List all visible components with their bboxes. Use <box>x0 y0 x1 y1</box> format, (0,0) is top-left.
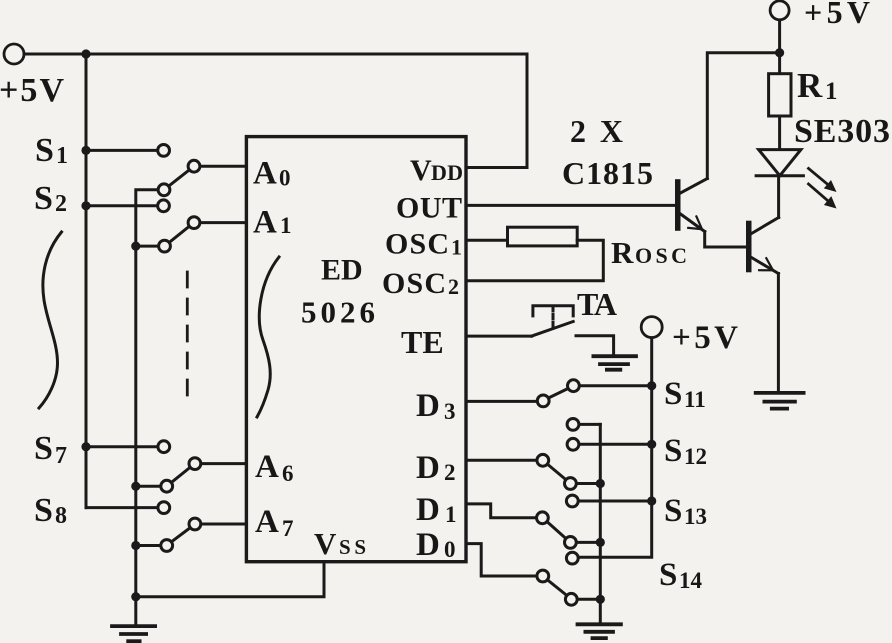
switch A0 <box>158 160 200 195</box>
svg-text:A: A <box>255 504 279 540</box>
svg-text:+5V: +5V <box>672 320 738 356</box>
label S14 <box>659 557 703 593</box>
wire S7 row <box>86 445 157 448</box>
wire stub to busR2 <box>580 423 601 426</box>
op-amp none; IC U1 ED5026 body <box>246 137 466 562</box>
svg-text:11: 11 <box>684 387 706 412</box>
label pin A6 <box>255 449 294 486</box>
terminal +5V top-right <box>770 1 789 20</box>
svg-text:1: 1 <box>445 502 457 527</box>
junction S7 / bus1 <box>81 442 90 451</box>
transistor Q1 (C1815) <box>675 179 707 232</box>
svg-text:S: S <box>34 430 53 467</box>
wire Q1 emitter to Q2 base <box>705 232 746 248</box>
contact S8 <box>158 502 170 514</box>
wire D2 throw to busR2 <box>577 482 600 485</box>
LED light emission arrows <box>809 169 837 209</box>
label S1 <box>35 132 68 169</box>
svg-text:8: 8 <box>55 503 67 529</box>
wire bus1 vertical <box>85 54 88 508</box>
wire +5V terminal to R1 <box>778 20 781 74</box>
junction D1 throw / busR2 <box>596 538 605 547</box>
wire bus2 vertical (switch common bus) <box>136 190 158 626</box>
label pin D3 <box>416 388 456 424</box>
svg-text:2: 2 <box>444 460 456 485</box>
terminal +5V top-left <box>4 44 24 64</box>
label S2 <box>34 180 67 217</box>
junction Vss wire / bus2 <box>131 592 140 601</box>
switch A1 <box>136 217 200 252</box>
contact S2 <box>158 200 170 212</box>
wire OUT pin to Q1 base <box>466 204 675 207</box>
svg-text:D: D <box>416 450 440 486</box>
wire S11 row <box>580 384 652 387</box>
contact S7 <box>158 441 170 453</box>
junction S11 / +5V column <box>647 381 656 390</box>
svg-text:12: 12 <box>684 444 707 469</box>
svg-text:A: A <box>253 156 277 192</box>
LED D? SE303 <box>756 150 803 176</box>
label S8 <box>34 492 67 529</box>
contact S13 <box>566 495 578 507</box>
junction D2 throw / busR2 <box>596 479 605 488</box>
wire R1 to LED anode <box>778 116 781 150</box>
svg-text:S: S <box>659 557 677 593</box>
contact S1 <box>158 145 170 157</box>
wire S1 row <box>86 149 157 152</box>
label pin A0 <box>253 156 291 192</box>
brace squiggle inside IC (A1...A6) <box>257 257 279 417</box>
junction A6 contact / bus2 <box>131 482 140 491</box>
label Rosc <box>611 235 687 270</box>
wire Vss pin to ground bus <box>136 562 324 597</box>
transistor Q2 (C1815) <box>746 218 779 274</box>
junction S2 / bus1 <box>81 201 90 210</box>
svg-text:S: S <box>34 492 53 529</box>
svg-text:R: R <box>611 235 634 270</box>
label S11 <box>664 376 706 412</box>
wire top rail from +5V terminal to VDD pin <box>24 54 527 168</box>
junction D0 throw / busR2 <box>596 595 605 604</box>
label pin OSC2 <box>382 267 459 300</box>
switch A6 <box>136 458 201 492</box>
svg-text:2: 2 <box>448 274 459 299</box>
ground under Q2 <box>756 393 804 409</box>
svg-text:OSC: OSC <box>385 228 449 261</box>
svg-text:SE303: SE303 <box>794 113 890 150</box>
svg-text:S: S <box>664 493 682 529</box>
svg-text:S: S <box>664 433 682 469</box>
junction top-right rail <box>775 48 784 57</box>
label pin D0 <box>416 527 456 563</box>
wire S12 row <box>580 443 652 446</box>
wire pin A6 <box>201 462 246 465</box>
junction S1 / bus1 <box>81 146 90 155</box>
wire D0 throw to busR2 <box>578 598 601 601</box>
label pin D2 <box>416 450 456 486</box>
wire pin D3 <box>466 400 537 403</box>
svg-text:+5V: +5V <box>804 0 870 30</box>
label pin A1 <box>253 205 292 241</box>
resistor Rosc <box>508 227 578 246</box>
pushbutton TA <box>532 306 574 336</box>
label pin A7 <box>255 504 294 541</box>
ground under TA <box>593 356 636 370</box>
svg-text:TE: TE <box>401 324 444 360</box>
junction A7 contact / bus2 <box>131 541 140 550</box>
label pin VDD <box>410 154 463 187</box>
svg-text:DD: DD <box>431 160 463 185</box>
svg-text:S: S <box>34 180 53 217</box>
svg-text:7: 7 <box>282 516 294 541</box>
svg-text:2 X: 2 X <box>570 113 623 149</box>
svg-text:D: D <box>416 492 440 528</box>
switch A7 <box>136 518 201 551</box>
svg-text:OUT: OUT <box>396 192 462 225</box>
junction S13 / +5V column <box>647 496 656 505</box>
switch D0 arm <box>537 570 577 605</box>
junction A1 contact / bus2 <box>131 242 140 251</box>
svg-text:1: 1 <box>280 213 292 238</box>
label S7 <box>34 430 67 469</box>
dashed ellipsis line (omitted switches) <box>186 272 189 403</box>
svg-text:3: 3 <box>444 399 456 424</box>
brace squiggle left (S2...S7) <box>39 232 62 408</box>
contact D3 lower throw <box>567 419 579 431</box>
svg-text:1: 1 <box>451 235 462 260</box>
switch S11 (D3) <box>537 380 579 407</box>
svg-text:D: D <box>416 388 440 424</box>
svg-text:1: 1 <box>825 78 838 105</box>
label pin D1 <box>416 492 457 528</box>
label pin Vss <box>314 526 366 561</box>
svg-text:C1815: C1815 <box>562 155 653 191</box>
wire pin D2 <box>466 459 536 462</box>
contact S12 <box>567 438 579 450</box>
svg-text:OSC: OSC <box>382 267 446 300</box>
svg-text:A: A <box>253 205 277 241</box>
wire +5V column down to S14 row <box>579 338 652 558</box>
ground under busR2 <box>578 624 621 638</box>
wire TA contact to ground <box>576 336 614 357</box>
svg-text:V: V <box>314 526 337 561</box>
wire Rosc to OSC2 pin <box>466 240 603 281</box>
junction bus1 / top rail <box>81 49 90 58</box>
svg-text:V: V <box>410 154 432 187</box>
svg-text:ED: ED <box>321 253 363 286</box>
wire pin A7 <box>201 523 246 526</box>
wire pin D0 <box>466 544 536 576</box>
contact S14 <box>566 552 578 564</box>
wire Q2 emitter to ground <box>777 274 780 390</box>
wire pin A1 <box>201 221 247 224</box>
wire TE pin <box>466 335 532 338</box>
label pin OSC1 <box>385 228 462 261</box>
wire OSC1 pin <box>466 239 508 242</box>
svg-text:0: 0 <box>444 537 456 562</box>
svg-text:+5V: +5V <box>0 72 64 109</box>
wire busR2 vertical (ground bus) <box>599 424 602 623</box>
svg-text:D: D <box>416 527 440 563</box>
label S12 <box>664 433 707 469</box>
svg-text:A: A <box>255 449 279 485</box>
junction S12 / +5V column <box>647 440 656 449</box>
switch D1 arm <box>537 512 577 548</box>
svg-text:R: R <box>797 66 823 105</box>
ground bottom-left <box>112 626 155 641</box>
wire pin D1 <box>466 504 536 518</box>
svg-text:OSC: OSC <box>635 243 687 268</box>
svg-text:14: 14 <box>679 568 703 593</box>
wire D1 throw to busR2 <box>577 541 600 544</box>
resistor R1 <box>769 74 791 116</box>
label R1 <box>797 66 838 105</box>
svg-text:1: 1 <box>56 143 68 169</box>
wire S8 row <box>86 506 157 509</box>
wire S2 row <box>86 204 157 207</box>
wire to Q1 collector <box>707 53 779 179</box>
terminal +5V middle-right <box>641 317 662 338</box>
wire pin A0 <box>201 165 247 168</box>
svg-text:0: 0 <box>279 166 291 191</box>
switch D2 arm <box>537 454 576 489</box>
wire S13 row <box>579 500 652 503</box>
svg-text:2: 2 <box>55 191 67 217</box>
svg-text:13: 13 <box>684 504 707 529</box>
wire LED cathode to Q2 collector <box>777 176 780 218</box>
label S13 <box>664 493 707 529</box>
svg-text:TA: TA <box>577 286 617 322</box>
svg-text:S: S <box>35 132 54 169</box>
svg-text:S: S <box>664 376 682 412</box>
svg-text:7: 7 <box>55 443 67 469</box>
svg-text:6: 6 <box>282 461 294 486</box>
